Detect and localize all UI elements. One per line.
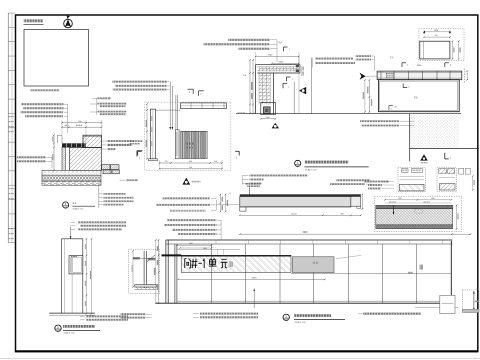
svg-text:700: 700 bbox=[189, 167, 192, 169]
svg-text:SCALE 1:25: SCALE 1:25 bbox=[72, 207, 84, 210]
svg-text:2800: 2800 bbox=[203, 248, 207, 250]
svg-text:400: 400 bbox=[189, 161, 192, 163]
svg-text:2: 2 bbox=[189, 92, 190, 94]
svg-text:SCALE 1:30: SCALE 1:30 bbox=[64, 332, 76, 335]
svg-text:SCALE 1:30: SCALE 1:30 bbox=[295, 321, 307, 324]
svg-text:50: 50 bbox=[229, 193, 231, 195]
svg-text:600: 600 bbox=[266, 117, 269, 119]
svg-text:2800: 2800 bbox=[252, 278, 258, 280]
svg-text:4900: 4900 bbox=[302, 232, 308, 234]
svg-text:2: 2 bbox=[200, 94, 201, 96]
svg-text:4: 4 bbox=[391, 108, 392, 110]
svg-text:P.A: P.A bbox=[390, 57, 394, 60]
svg-text:P.A: P.A bbox=[414, 96, 418, 99]
svg-text:P.A: P.A bbox=[279, 41, 283, 44]
svg-text:400: 400 bbox=[395, 107, 398, 109]
svg-text:150: 150 bbox=[165, 161, 168, 163]
svg-text:P.A: P.A bbox=[243, 74, 247, 77]
svg-text:150: 150 bbox=[214, 161, 217, 163]
svg-text:1-1: 1-1 bbox=[72, 201, 76, 205]
svg-text:700: 700 bbox=[434, 35, 437, 37]
svg-text:SCALE 1:30: SCALE 1:30 bbox=[305, 168, 317, 171]
